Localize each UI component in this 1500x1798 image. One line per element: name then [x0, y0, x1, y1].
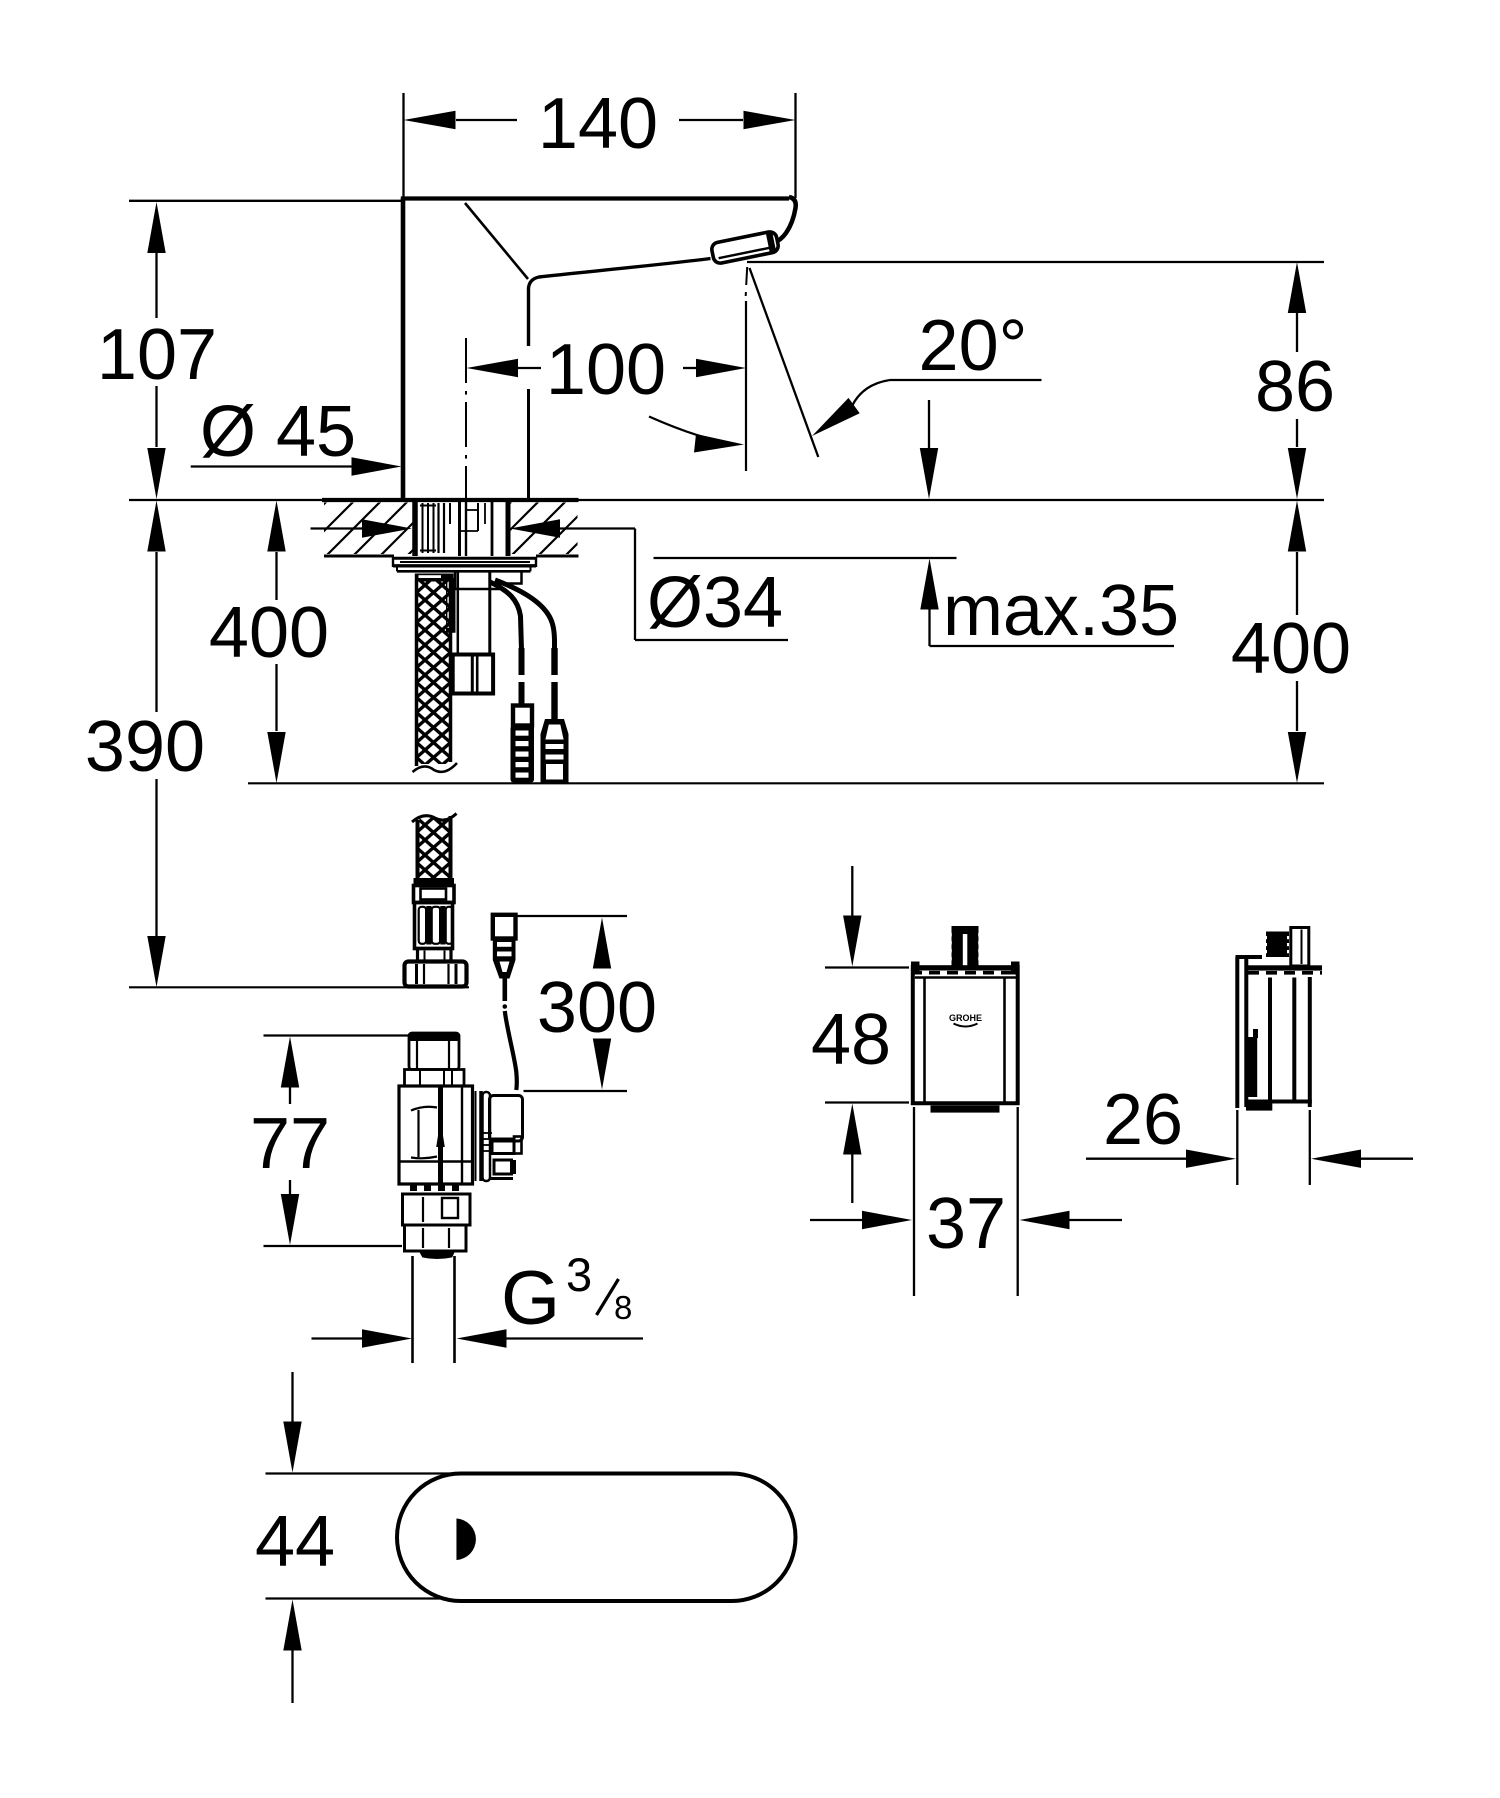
svg-text:8: 8	[614, 1289, 632, 1326]
svg-text:G: G	[501, 1256, 560, 1341]
svg-text:Ø34: Ø34	[647, 563, 783, 643]
svg-text:107: 107	[97, 315, 217, 395]
svg-text:100: 100	[546, 330, 666, 410]
svg-text:77: 77	[250, 1104, 330, 1184]
svg-text:400: 400	[1231, 609, 1351, 689]
svg-text:48: 48	[811, 1000, 891, 1080]
svg-text:86: 86	[1255, 347, 1335, 427]
svg-text:max.35: max.35	[943, 571, 1179, 651]
svg-text:Ø 45: Ø 45	[200, 392, 356, 472]
svg-text:300: 300	[537, 968, 657, 1048]
svg-text:GROHE: GROHE	[949, 1013, 982, 1023]
svg-text:140: 140	[538, 84, 658, 164]
svg-text:37: 37	[926, 1184, 1006, 1264]
svg-text:44: 44	[255, 1502, 335, 1582]
svg-text:20°: 20°	[919, 306, 1028, 386]
svg-text:390: 390	[85, 707, 205, 787]
svg-text:400: 400	[209, 593, 329, 673]
svg-text:3: 3	[566, 1248, 592, 1301]
svg-text:26: 26	[1103, 1080, 1183, 1160]
